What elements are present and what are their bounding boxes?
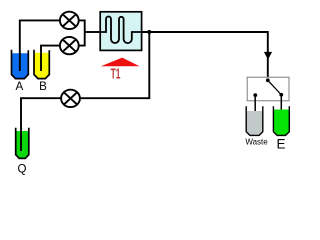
wire valve to reservoir E (280, 95, 282, 113)
pump P3 (61, 90, 80, 107)
valve lever (268, 80, 282, 95)
reservoir Waste (246, 106, 263, 135)
wire coil box to valve (main flow line) (142, 32, 268, 80)
flow direction arrow (264, 52, 272, 60)
svg-text:B: B (39, 80, 47, 93)
svg-text:Waste: Waste (245, 137, 268, 146)
wire reservoir A to pump P1 (20, 20, 60, 71)
junction node (147, 30, 151, 34)
wire merge point to coil box (85, 31, 101, 33)
pump P2 (60, 37, 79, 54)
svg-text:T1: T1 (111, 65, 121, 82)
valve node to waste (253, 93, 257, 97)
reservoir B (34, 50, 49, 79)
valve node to E (279, 93, 283, 97)
dip tube A (19, 53, 21, 71)
heated coil unit box (100, 12, 141, 51)
heater symbol (red arrow) (101, 58, 140, 67)
svg-text:A: A (16, 80, 24, 93)
svg-text:E: E (277, 137, 286, 152)
wire pump P1 to merge point (79, 20, 85, 32)
wire reservoir B to pump P2 (41, 46, 60, 71)
wire valve to waste reservoir (254, 95, 256, 114)
svg-text:Q: Q (18, 163, 27, 175)
reservoir A (12, 50, 29, 79)
valve input node (266, 78, 270, 82)
pump P1 (60, 12, 79, 29)
wire pump P3 to junction (80, 32, 149, 98)
mixing coil (100, 17, 141, 44)
dip tube B (40, 53, 42, 71)
reservoir E (273, 106, 289, 135)
wire pump P2 to merge point (79, 32, 85, 46)
wire reservoir Q to pump P3 (21, 98, 61, 151)
dip tube Q (20, 131, 22, 151)
valve box (247, 77, 289, 101)
reservoir Q (16, 128, 29, 159)
